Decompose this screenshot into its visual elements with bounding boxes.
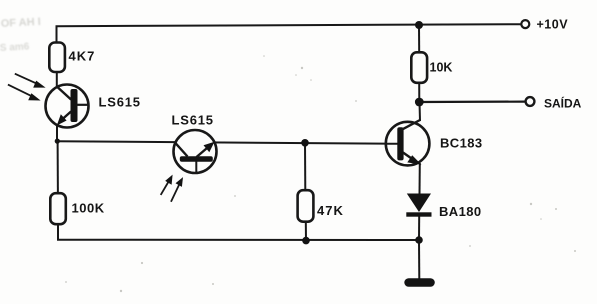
- node A: Q1 emitter / middle rail junction: [55, 139, 60, 144]
- scan bleed-through artifact top-left: [0, 16, 41, 54]
- phototransistor LS615 Q2 body: [174, 130, 217, 173]
- svg-text:LS615: LS615: [172, 113, 214, 128]
- wire: bottom rail: [57, 239, 419, 241]
- Q1 base stub: [77, 104, 89, 106]
- Q2 light arrow 2: [171, 183, 180, 202]
- node: 47K / middle rail junction: [301, 139, 309, 147]
- resistor 10K: [411, 52, 427, 83]
- svg-text:SAÍDA: SAÍDA: [544, 96, 582, 111]
- BC183 collector lead: [402, 120, 421, 130]
- wire: 10K bottom to output node: [418, 82, 420, 102]
- resistor 100K: [50, 193, 66, 224]
- wire: bottom node to ground: [418, 240, 420, 280]
- node: top rail / 10K junction: [415, 21, 423, 29]
- ground: [404, 278, 435, 287]
- resistor 4K7: [49, 43, 65, 73]
- Q1 light arrow 2: [8, 85, 33, 97]
- svg-text:BC183: BC183: [440, 136, 482, 151]
- svg-text:4K7: 4K7: [69, 49, 96, 64]
- svg-text:BA180: BA180: [439, 204, 481, 219]
- wire: node A down to 100K top: [57, 141, 59, 194]
- node: diode / bottom rail junction: [415, 236, 423, 244]
- Q2 light arrow 1: [161, 180, 170, 195]
- BC183 emitter lead with arrow: [403, 153, 413, 160]
- BC183 base bar: [397, 127, 403, 160]
- wire: SAIDA output lead: [419, 100, 524, 103]
- svg-text:LS615: LS615: [99, 95, 141, 110]
- wire: 47K bottom stub: [305, 222, 307, 241]
- wire: BC183 emitter down to diode anode: [419, 163, 421, 195]
- transistor BC183 body: [386, 122, 430, 166]
- Q1 light arrow 1: [15, 74, 38, 85]
- wire: 4K7 bottom to Q1 collector: [56, 71, 58, 88]
- svg-text:10K: 10K: [430, 61, 453, 75]
- node: output junction: [415, 98, 424, 107]
- node: 47K / bottom rail junction: [302, 237, 310, 245]
- Q1 base bar: [71, 89, 78, 122]
- diode BA180: [407, 194, 431, 213]
- terminal SAIDA: [526, 97, 535, 106]
- svg-text:47K: 47K: [317, 203, 344, 218]
- resistor 47K: [298, 190, 314, 222]
- wire: top rail from 4K7 top to +10V terminal: [56, 27, 58, 43]
- wire: diode cathode to bottom node: [418, 216, 420, 240]
- Q2 collector lead: [175, 143, 188, 157]
- Q2 base stub: [195, 162, 197, 174]
- svg-text:OF AH I: OF AH I: [1, 16, 42, 30]
- terminal +10V: [521, 20, 529, 28]
- wire: Q1 emitter to node A: [56, 124, 58, 142]
- Q1 collector lead: [57, 87, 71, 100]
- svg-text:100K: 100K: [72, 201, 105, 216]
- wire: 47K top stub: [304, 143, 306, 192]
- Q2 base bar: [180, 156, 213, 162]
- wire: middle rail node A to BC183 base: [56, 141, 399, 144]
- svg-text:+10V: +10V: [537, 18, 569, 32]
- Q1 emitter lead with arrow: [62, 112, 71, 120]
- BC183 base wire inside: [385, 143, 399, 145]
- wire: top rail to 10K top: [418, 25, 420, 53]
- wire: output node down to BC183 collector: [419, 102, 422, 121]
- phototransistor LS615 Q1 body: [46, 85, 89, 128]
- wire: 100K bottom to bottom rail corner: [57, 224, 59, 240]
- Q2 emitter lead with arrow: [197, 146, 211, 158]
- svg-text:S am6: S am6: [0, 41, 30, 54]
